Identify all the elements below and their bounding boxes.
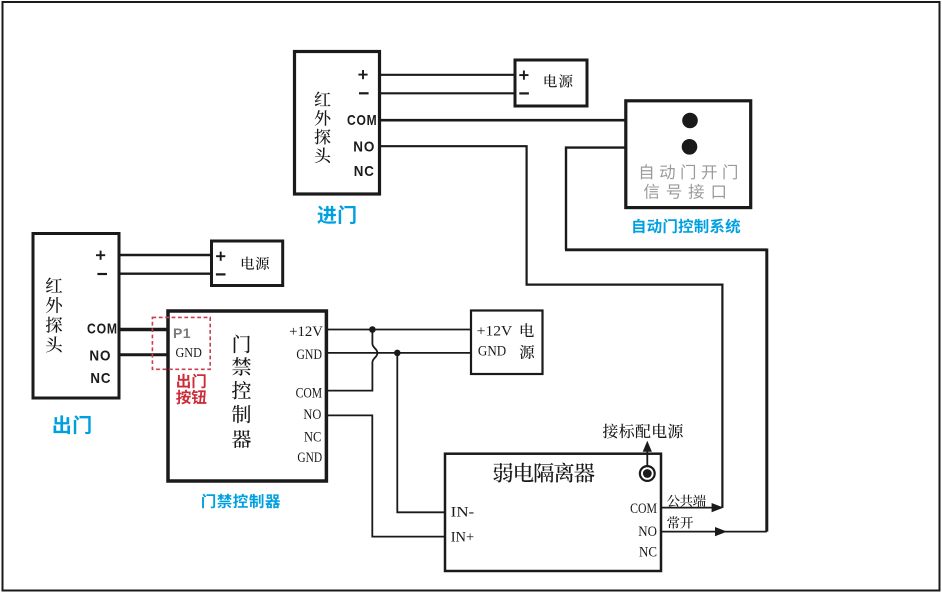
- arrowhead on common-terminal wire: [712, 503, 724, 512]
- wire: isolator COM to common-terminal net: [661, 507, 722, 509]
- wire: controller +12V to DC power supply: [326, 329, 471, 331]
- svg-text:P1: P1: [173, 325, 191, 341]
- junction dot on +12V wire: [369, 326, 376, 333]
- junction dot on GND wire: [394, 350, 401, 357]
- arrow from terminal to standard power label: [646, 451, 648, 467]
- interface terminal dot 2: [682, 139, 698, 155]
- wire: controller GND to DC power supply: [326, 352, 471, 354]
- exit button red label line 1: [177, 374, 206, 389]
- svg-text:IN-: IN-: [451, 505, 475, 521]
- wire: isolator NO (normally open) wire: [661, 531, 767, 533]
- exit infrared sensor box: [33, 234, 119, 399]
- exit button red dashed outline P1 connector: [152, 317, 210, 369]
- top power supply pin +: [519, 71, 528, 80]
- controller vertical label (access controller): [232, 335, 251, 448]
- wire: exit sensor + to power supply +: [119, 254, 212, 256]
- exit sensor vertical label (infrared probe): [46, 277, 63, 352]
- svg-text:NC: NC: [354, 163, 375, 180]
- DC power label char 1: [521, 323, 534, 337]
- left power supply label: [242, 257, 269, 270]
- DC power label char 2: [520, 345, 534, 359]
- wire: entry sensor - to power supply -: [380, 92, 515, 94]
- entry infrared sensor box: [295, 52, 380, 195]
- normally-open label: [667, 516, 693, 528]
- svg-text:GND: GND: [297, 450, 322, 466]
- wire: entry sensor + to power supply +: [380, 74, 515, 76]
- isolator title (weak current isolator): [493, 463, 594, 483]
- wire: entry sensor COM to auto-door interface pin 1: [380, 119, 626, 122]
- wire: horizontal segment of interface pin2 net: [565, 248, 767, 251]
- svg-text:NO: NO: [638, 524, 657, 540]
- svg-text:NO: NO: [353, 139, 375, 156]
- svg-text:NO: NO: [303, 407, 321, 423]
- arrowhead on normally-open wire: [715, 527, 727, 536]
- wire: entry sensor NO down-right-down to isolator COM net: [380, 146, 722, 507]
- svg-text:+12V: +12V: [289, 324, 323, 340]
- weak-current isolator box: [445, 454, 661, 571]
- wire: exit sensor - to power supply -: [119, 273, 212, 275]
- entry sensor vertical label (infrared probe): [315, 92, 331, 164]
- wire: auto-door interface pin 2 to isolator NO net (left-down): [566, 148, 626, 250]
- wire: controller NO down to isolator IN+: [326, 415, 445, 536]
- common terminal label: [667, 495, 706, 507]
- access controller box: [168, 311, 326, 481]
- top power supply label: [545, 74, 573, 87]
- DC +12V power supply box: [471, 311, 543, 375]
- entry sensor pin -: [359, 92, 369, 94]
- entry door label (cyan): [317, 205, 355, 224]
- auto-door control system label (cyan): [633, 219, 740, 234]
- svg-text:NC: NC: [90, 370, 111, 387]
- interface gray label line 2: [644, 184, 725, 199]
- entry sensor pin +: [358, 70, 367, 79]
- svg-text:IN+: IN+: [451, 530, 475, 546]
- top power supply pin -: [519, 92, 529, 94]
- svg-text:NC: NC: [639, 545, 657, 561]
- svg-text:COM: COM: [87, 320, 118, 337]
- interface terminal dot 1: [682, 113, 698, 129]
- isolator power terminal ring: [640, 466, 655, 481]
- svg-text:COM: COM: [347, 112, 378, 129]
- svg-text:+12V: +12V: [477, 323, 513, 339]
- wire: exit sensor NO to controller GND: [119, 353, 168, 356]
- svg-text:GND: GND: [478, 344, 506, 360]
- svg-text:NO: NO: [89, 348, 111, 365]
- wire: +12V junction down to controller COM (with hop over GND wire): [326, 330, 377, 391]
- svg-text:GND: GND: [296, 347, 322, 363]
- access controller label (cyan): [202, 494, 280, 509]
- wire: exit sensor COM to controller P1: [119, 328, 168, 331]
- svg-text:COM: COM: [296, 386, 323, 402]
- svg-text:COM: COM: [630, 501, 657, 517]
- wire: thick vertical segment down to NO (normally-open) wire: [765, 249, 768, 532]
- top power supply box: [515, 60, 587, 106]
- auto-door open signal interface box: [626, 101, 751, 208]
- exit sensor pin -: [97, 273, 107, 275]
- svg-text:NC: NC: [304, 429, 321, 445]
- svg-text:GND: GND: [176, 346, 202, 361]
- wire: GND junction down to isolator IN-: [397, 353, 445, 512]
- left power supply box: [212, 241, 283, 286]
- standard power label: [603, 424, 683, 439]
- exit button red label line 2: [176, 390, 206, 405]
- left power supply pin +: [216, 252, 225, 261]
- exit door label (cyan): [54, 415, 91, 434]
- left power supply pin -: [216, 273, 226, 275]
- exit sensor pin +: [96, 251, 105, 260]
- interface gray label line 1: [641, 164, 737, 179]
